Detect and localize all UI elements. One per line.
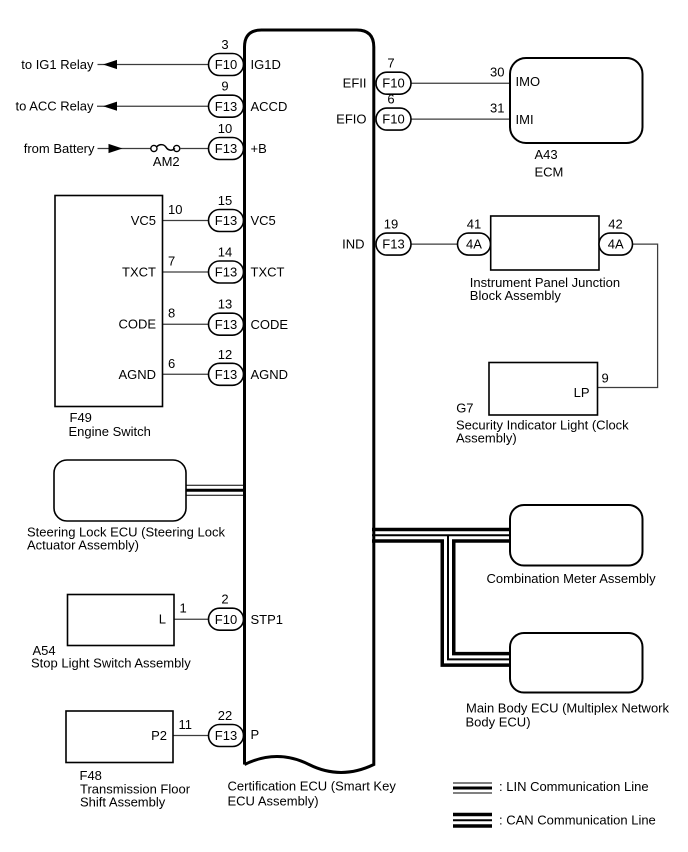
arrow to ACC Relay: [103, 102, 117, 111]
svg-text:F13: F13: [215, 728, 237, 743]
box A43 ECM: [510, 58, 643, 143]
CAN branch to Main Body ECU: [448, 535, 510, 659]
wire EFIO to IMI: [411, 118, 510, 120]
connector F10 pin 7 EFII: [376, 72, 411, 94]
svg-text:6: 6: [387, 92, 394, 107]
svg-text:14: 14: [218, 245, 232, 260]
svg-text:7: 7: [387, 56, 394, 71]
wire ACCD to ACC Relay: [97, 105, 209, 107]
arrow from Battery: [109, 144, 123, 153]
box Steering Lock ECU: [54, 460, 186, 521]
svg-text:F10: F10: [215, 57, 237, 72]
svg-text:A43: A43: [535, 147, 558, 162]
svg-text:F13: F13: [215, 265, 237, 280]
svg-text:P: P: [251, 727, 260, 742]
svg-text:Main Body ECU (Multiplex Netwo: Main Body ECU (Multiplex Network: [466, 701, 670, 716]
svg-text:CODE: CODE: [251, 317, 289, 332]
svg-text:IND: IND: [342, 237, 364, 252]
svg-text:LP: LP: [574, 385, 590, 400]
box Security Indicator Light: [489, 363, 598, 416]
connector 4A pin 41: [458, 233, 491, 255]
svg-text:30: 30: [490, 65, 504, 80]
wire VC5: [163, 220, 209, 222]
wire fuse AM2 to +B: [180, 148, 209, 150]
svg-text:F13: F13: [382, 237, 404, 252]
svg-text:13: 13: [218, 297, 232, 312]
ECU block Certification ECU outline: [245, 30, 374, 772]
svg-text:F10: F10: [382, 112, 404, 127]
wire 4A to LP security indicator: [598, 244, 658, 387]
wire from Battery to fuse AM2: [98, 148, 151, 150]
arrow to IG1 Relay: [103, 60, 117, 69]
svg-text:11: 11: [179, 717, 193, 732]
wire TXCT: [163, 271, 209, 273]
connector F13 pin 19 IND: [376, 233, 411, 255]
svg-text:41: 41: [467, 217, 481, 232]
svg-text:1: 1: [180, 601, 187, 616]
wire P: [173, 735, 209, 737]
svg-text:ECU Assembly): ECU Assembly): [228, 793, 319, 808]
legend LIN line: [453, 783, 492, 794]
svg-text:Shift Assembly: Shift Assembly: [80, 794, 166, 809]
wire IG1D to IG1 Relay: [98, 64, 209, 66]
svg-text:4A: 4A: [466, 237, 482, 252]
svg-text:AGND: AGND: [251, 367, 289, 382]
connector F13 pin 15 VC5: [209, 210, 244, 232]
svg-text:6: 6: [168, 356, 175, 371]
svg-text:9: 9: [221, 79, 228, 94]
svg-text:to IG1 Relay: to IG1 Relay: [21, 57, 94, 72]
connector F13 pin 22 P: [209, 725, 244, 747]
connector F10 pin 2 STP1: [209, 608, 244, 630]
svg-text:F13: F13: [215, 141, 237, 156]
svg-text:G7: G7: [456, 400, 473, 415]
svg-text:Actuator Assembly): Actuator Assembly): [27, 538, 139, 553]
svg-text:F49: F49: [70, 410, 92, 425]
wire CODE: [163, 323, 209, 325]
svg-text:: LIN Communication Line: : LIN Communication Line: [499, 779, 649, 794]
svg-text:+B: +B: [251, 141, 267, 156]
connector F13 pin 9 ACCD: [209, 95, 244, 117]
svg-text:2: 2: [221, 592, 228, 607]
svg-text:31: 31: [490, 101, 504, 116]
svg-text:IMO: IMO: [516, 74, 541, 89]
svg-text:19: 19: [384, 217, 398, 232]
wire AGND: [163, 373, 209, 375]
svg-text:22: 22: [218, 708, 232, 723]
wire EFII to IMO: [411, 82, 510, 84]
wire STP1: [174, 618, 209, 620]
svg-text:8: 8: [168, 306, 175, 321]
svg-text:F13: F13: [215, 367, 237, 382]
wire IND to 4A: [411, 243, 458, 245]
svg-text:10: 10: [218, 121, 232, 136]
connector F13 pin 14 TXCT: [209, 261, 244, 283]
svg-text:AM2: AM2: [153, 154, 180, 169]
svg-text:L: L: [159, 612, 166, 627]
CAN line ECU to Combination Meter: [372, 528, 510, 543]
svg-text:CODE: CODE: [118, 317, 156, 332]
svg-text:F13: F13: [215, 317, 237, 332]
svg-text:F10: F10: [215, 612, 237, 627]
svg-text:IMI: IMI: [516, 112, 534, 127]
box Main Body ECU: [510, 633, 643, 693]
svg-text:P2: P2: [151, 728, 167, 743]
LIN line steering lock to ECU: [185, 485, 245, 496]
LINCAN: [185, 490, 510, 659]
svg-text:F10: F10: [382, 76, 404, 91]
svg-text:to ACC Relay: to ACC Relay: [15, 99, 94, 114]
svg-text:EFIO: EFIO: [336, 112, 366, 127]
BOXES: [54, 58, 643, 763]
svg-text:Engine Switch: Engine Switch: [69, 424, 151, 439]
box A54 Stop Light Switch: [68, 595, 175, 646]
connector F10 pin 6 EFIO: [376, 108, 411, 130]
svg-text:Block Assembly: Block Assembly: [470, 288, 562, 303]
svg-text:4A: 4A: [608, 237, 624, 252]
box Instrument Panel Junction Block: [491, 216, 599, 270]
svg-text:VC5: VC5: [251, 213, 276, 228]
svg-text:Certification ECU (Smart Key: Certification ECU (Smart Key: [228, 779, 397, 794]
svg-text:ACCD: ACCD: [251, 99, 288, 114]
svg-text:Body ECU): Body ECU): [466, 714, 531, 729]
svg-text:15: 15: [218, 193, 232, 208]
connector F13 pin 13 CODE: [209, 313, 244, 335]
svg-text:3: 3: [221, 37, 228, 52]
svg-text:12: 12: [218, 347, 232, 362]
svg-text:7: 7: [168, 254, 175, 269]
box F48 Transmission Floor Shift: [66, 711, 173, 763]
svg-text:42: 42: [608, 217, 622, 232]
svg-text:10: 10: [168, 202, 182, 217]
box F49 Engine Switch: [55, 196, 163, 407]
connector F13 pin 12 AGND: [209, 363, 244, 385]
OVALS: [209, 30, 633, 772]
svg-text:ECM: ECM: [535, 165, 564, 180]
fuse AM2: [151, 145, 180, 152]
svg-text:TXCT: TXCT: [122, 265, 156, 280]
svg-text:VC5: VC5: [131, 213, 156, 228]
svg-text:from Battery: from Battery: [24, 141, 95, 156]
legend CAN line: [453, 813, 492, 828]
svg-text:AGND: AGND: [118, 367, 156, 382]
connector F10 pin 3 IG1D: [209, 54, 244, 76]
svg-text:F13: F13: [215, 213, 237, 228]
svg-text:TXCT: TXCT: [251, 265, 285, 280]
svg-text:Stop Light Switch Assembly: Stop Light Switch Assembly: [31, 656, 191, 671]
svg-text:STP1: STP1: [251, 612, 284, 627]
svg-text:: CAN Communication Line: : CAN Communication Line: [499, 812, 656, 827]
svg-text:EFII: EFII: [343, 76, 367, 91]
svg-text:F13: F13: [215, 99, 237, 114]
svg-text:Assembly): Assembly): [456, 431, 517, 446]
svg-text:9: 9: [602, 371, 609, 386]
svg-text:Combination Meter Assembly: Combination Meter Assembly: [487, 571, 657, 586]
connector 4A pin 42: [599, 233, 633, 255]
svg-text:IG1D: IG1D: [251, 57, 281, 72]
connector F13 pin 10 +B: [209, 138, 244, 160]
box Combination Meter Assembly: [510, 505, 643, 566]
